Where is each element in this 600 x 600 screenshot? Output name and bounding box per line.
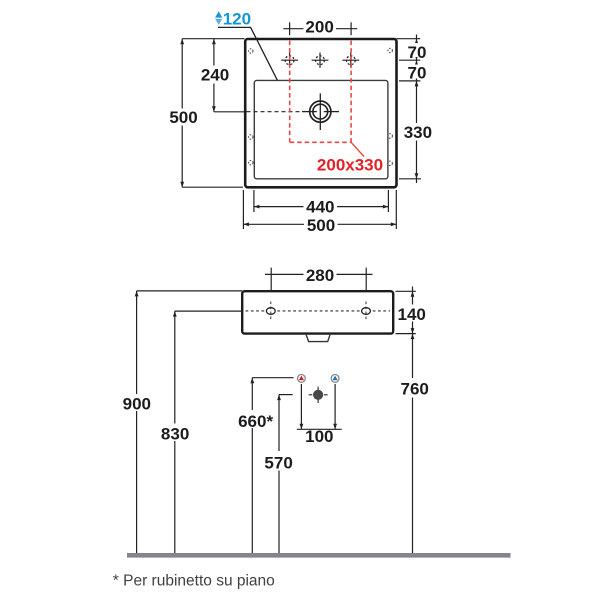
- svg-text:330: 330: [404, 123, 432, 142]
- mounting hole top-right: [388, 48, 392, 52]
- dimension 900 (far left): [137, 291, 243, 553]
- dimension 280 (front top): [265, 268, 373, 291]
- red leader line: [351, 142, 364, 156]
- svg-text:280: 280: [306, 266, 334, 285]
- drain (plan view): [302, 93, 339, 130]
- dimensions 70 / 70 / 330 (right): [397, 35, 422, 184]
- dimension 140 and 760 (right chain): [396, 287, 416, 554]
- dimension 660*: [252, 378, 293, 553]
- red dashed tap zone left line: [289, 41, 291, 143]
- dimension 500 (left): [182, 39, 244, 188]
- blue height icon (double arrow): [215, 11, 222, 17]
- faucet hole left: [281, 53, 298, 68]
- svg-text:70: 70: [408, 64, 427, 83]
- basin outer square (plan view): [245, 39, 396, 187]
- svg-text:570: 570: [264, 453, 292, 472]
- centerline dashed to drain: [247, 111, 301, 113]
- svg-text:* Per rubinetto su piano: * Per rubinetto su piano: [113, 573, 275, 590]
- svg-text:660*: 660*: [238, 412, 273, 431]
- cold water symbol (blue): [331, 375, 339, 383]
- mounting hole mid-right: [388, 134, 392, 138]
- front centerline dashed: [246, 310, 391, 312]
- overflow / drain tab under basin: [306, 335, 330, 342]
- floor bar: [127, 553, 511, 558]
- mounting hole mid-left: [249, 135, 253, 139]
- red dashed tap zone right line: [350, 41, 352, 143]
- svg-text:900: 900: [123, 394, 151, 413]
- waste pipe symbol (dark circle): [313, 390, 323, 400]
- mounting hole bottom-right: [388, 161, 392, 165]
- svg-text:70: 70: [408, 43, 427, 62]
- faucet hole right: [342, 53, 359, 68]
- dimension 570: [279, 395, 293, 553]
- svg-text:440: 440: [306, 197, 334, 216]
- basin front rectangle: [242, 291, 393, 333]
- svg-text:760: 760: [401, 380, 429, 399]
- dimension 500 (bottom): [243, 190, 396, 229]
- svg-text:200: 200: [305, 18, 333, 37]
- red dashed tap zone bottom line: [290, 141, 351, 143]
- faucet hole center: [312, 53, 329, 68]
- dimension 830: [175, 311, 242, 553]
- dimension 240 (left inner): [214, 39, 246, 112]
- dimension 440 (bottom): [254, 190, 389, 212]
- dimension 200 (top): [283, 22, 357, 35]
- mounting hole top-left: [249, 49, 253, 53]
- svg-text:500: 500: [169, 108, 197, 127]
- hot water symbol (red): [298, 375, 306, 383]
- dimension 100 (tap centres): [297, 384, 342, 429]
- leader from 120 label: [218, 27, 277, 80]
- basin inner bowl rectangle: [254, 80, 388, 178]
- svg-text:830: 830: [161, 424, 189, 443]
- svg-text:100: 100: [305, 427, 333, 446]
- svg-text:140: 140: [398, 305, 426, 324]
- fixing hole left (front): [266, 308, 275, 315]
- svg-text:500: 500: [307, 216, 335, 235]
- fixing hole right (front): [362, 308, 371, 315]
- svg-text:200x330: 200x330: [317, 156, 383, 175]
- mounting hole bottom-left: [249, 161, 253, 165]
- svg-text:240: 240: [201, 66, 229, 85]
- svg-text:120: 120: [223, 10, 251, 29]
